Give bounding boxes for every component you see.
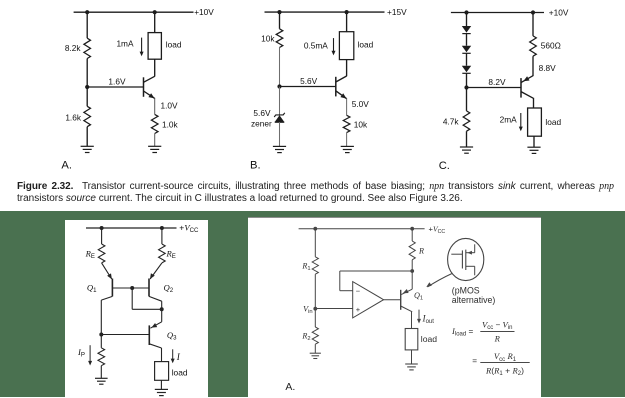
- node: feedback/emitter junction: [410, 269, 414, 273]
- svg-text:A.: A.: [285, 381, 295, 393]
- white panel: current mirror figure: [65, 220, 208, 398]
- wire: Q1 collector to load: [401, 306, 413, 312]
- svg-text:R1: R1: [301, 261, 310, 272]
- caption line 1: [17, 181, 614, 193]
- wire: zener to ground (B): [279, 122, 281, 146]
- svg-text:+VCC: +VCC: [179, 222, 199, 234]
- zener diode 5.6V: [275, 115, 285, 122]
- svg-text:+15V: +15V: [387, 7, 407, 17]
- label Iout with arrow: [418, 310, 420, 322]
- svg-text:alternative): alternative): [452, 295, 496, 305]
- green background band: [0, 211, 625, 397]
- wire: load to ground (C): [533, 136, 535, 147]
- svg-text:5.6V: 5.6V: [300, 76, 318, 86]
- wire: base node to base (A): [87, 86, 143, 88]
- svg-text:R2: R2: [301, 332, 310, 343]
- svg-text:load: load: [358, 40, 374, 50]
- svg-text:B.: B.: [250, 159, 261, 171]
- wire: R1 to Vin node: [314, 274, 316, 308]
- svg-text:Vcc R1: Vcc R1: [494, 351, 517, 363]
- svg-text:R: R: [418, 247, 424, 256]
- svg-text:load: load: [421, 334, 437, 344]
- wire: Q3 base to node: [101, 334, 149, 336]
- wire: rail to load box (A): [154, 12, 156, 32]
- wire: D1 to D2: [466, 34, 468, 46]
- svg-text:Iout: Iout: [422, 313, 435, 325]
- ground (mirror load): [155, 388, 168, 390]
- wire: node to base (B): [280, 86, 336, 88]
- op-amp U1: [353, 282, 384, 318]
- resistor RE (right): [159, 244, 166, 263]
- wire: R to emitter junction: [411, 260, 413, 271]
- resistor 10k (B bias): [276, 29, 283, 48]
- svg-text:1.6V: 1.6V: [108, 76, 126, 86]
- wire: 1.6k to ground: [86, 127, 88, 147]
- resistor 1.6k: [84, 106, 91, 126]
- load box (A): [148, 33, 161, 60]
- label I with arrow: [172, 349, 174, 361]
- wire: Vin node to R2: [314, 309, 316, 328]
- svg-text:+: +: [356, 305, 361, 314]
- svg-text:+10V: +10V: [549, 7, 569, 17]
- diode D2: [462, 46, 471, 53]
- node: base tie: [130, 286, 134, 290]
- svg-text:A.: A.: [61, 159, 72, 171]
- node: base node (C): [464, 85, 468, 89]
- svg-text:RE: RE: [166, 248, 176, 260]
- wire: rail to diode 1: [466, 13, 468, 27]
- wire: rail to resistor R 8.2k: [86, 12, 88, 38]
- ground (A emitter): [148, 145, 161, 147]
- wire: rail to load (B): [346, 12, 348, 32]
- wire: emitter down (A): [154, 98, 156, 114]
- svg-text:10k: 10k: [354, 120, 368, 130]
- diode D1: [462, 26, 471, 33]
- transistor Q (npn, circuit A): [143, 77, 145, 97]
- node: zener/base node (B): [277, 84, 281, 88]
- svg-text:load: load: [545, 117, 561, 127]
- wire: +10V supply rail (circuit C): [451, 12, 544, 14]
- wire: rail to RE left: [101, 228, 103, 244]
- ground (C load): [527, 146, 540, 148]
- wire: RE to Q1 emitter: [102, 263, 112, 279]
- load box (mirror): [155, 362, 169, 381]
- svg-text:+VCC: +VCC: [429, 225, 446, 235]
- resistor RE (left): [98, 244, 105, 263]
- node: rail junction left (op-amp): [313, 227, 317, 231]
- svg-text:0.5mA: 0.5mA: [304, 40, 328, 50]
- svg-text:Q2: Q2: [164, 283, 174, 295]
- wire: +Vcc rail (op-amp source): [299, 228, 425, 230]
- svg-text:Iload =: Iload =: [451, 326, 473, 338]
- node: rail junction right (op-amp): [410, 227, 414, 231]
- svg-text:load: load: [166, 40, 182, 50]
- ground (B emitter): [341, 145, 354, 147]
- node: rail junction left (C): [464, 10, 468, 14]
- svg-text:I: I: [176, 352, 181, 362]
- wire: emitter down (B): [346, 98, 348, 115]
- wire: tie to Q3 emitter: [161, 309, 163, 322]
- ground (A left): [81, 145, 94, 147]
- svg-text:10k: 10k: [261, 34, 275, 44]
- svg-text:Q3: Q3: [167, 330, 177, 342]
- svg-text:Vin: Vin: [303, 305, 313, 316]
- svg-text:1.0k: 1.0k: [162, 120, 179, 130]
- svg-text:R(R1 + R2): R(R1 + R2): [485, 365, 524, 377]
- resistor 4.7k: [463, 111, 470, 131]
- svg-text:Q1: Q1: [414, 291, 423, 302]
- wire: node to zener: [279, 87, 281, 116]
- node: rail junction right (A): [153, 10, 157, 14]
- wire: Q2 collector: [149, 296, 162, 301]
- svg-text:1mA: 1mA: [116, 38, 134, 48]
- ground (B zener): [273, 145, 286, 147]
- wire: load to collector (B): [346, 59, 348, 76]
- wire: base tie down to collector tie: [131, 288, 133, 309]
- wire: collector to load (C): [533, 98, 535, 108]
- svg-text:C.: C.: [439, 160, 450, 172]
- ground (C left): [460, 146, 473, 148]
- wire: feedback from - input: [340, 290, 353, 292]
- resistor IP (program): [98, 348, 105, 366]
- svg-text:load: load: [172, 367, 188, 377]
- node: rail junction left (A): [85, 10, 89, 14]
- wire: base node to base (C): [467, 87, 522, 89]
- resistor 10k (emitter B): [343, 115, 350, 132]
- svg-text:2mA: 2mA: [500, 114, 518, 124]
- svg-text:8.2k: 8.2k: [65, 43, 82, 53]
- resistor R (sense): [409, 241, 415, 260]
- node: rail junction left (B): [277, 10, 281, 14]
- wire: Q1 collector down: [101, 296, 112, 300]
- resistor 8.2k: [84, 38, 91, 58]
- node: rail junction right (C): [531, 10, 535, 14]
- transistor pMOS symbol: [461, 250, 463, 268]
- wire: +10V supply rail (circuit A): [74, 11, 194, 13]
- transistor Q2 (pnp mirror): [148, 279, 150, 297]
- svg-text:5.6V: 5.6V: [253, 108, 271, 118]
- svg-text:zener: zener: [251, 119, 272, 129]
- svg-text:+10V: +10V: [194, 7, 214, 17]
- wire: rail to RE right: [161, 228, 163, 244]
- svg-text:1.6k: 1.6k: [65, 113, 82, 123]
- wire: +VCC rail (mirror): [86, 227, 177, 229]
- svg-text:(pMOS: (pMOS: [452, 286, 480, 296]
- wire: load to collector (A): [154, 59, 156, 76]
- wire: base node to 4.7k: [466, 88, 468, 111]
- resistor R1: [312, 257, 318, 274]
- load box (B): [339, 32, 353, 60]
- wire: 10k to zener node: [279, 48, 281, 87]
- load box (op-amp source): [405, 329, 418, 350]
- transistor Q3 (pnp output): [148, 325, 150, 345]
- wire: D3 to base node (C): [466, 73, 468, 87]
- wire: R2 to ground: [314, 344, 316, 353]
- wire: rail to 10k (B): [279, 12, 281, 29]
- wire: Q1 base to Q2 base: [112, 287, 149, 289]
- svg-text:−: −: [356, 287, 361, 296]
- wire: op-amp output to Q1 base: [384, 299, 401, 301]
- transistor Q (npn, circuit B): [335, 77, 337, 97]
- wire: base node to 1.6k: [86, 87, 88, 106]
- transistor Q1 (pnp pass): [400, 290, 402, 310]
- wire: Vin node to op-amp + input: [315, 308, 352, 310]
- wire: D2 to D3: [466, 53, 468, 65]
- wire: load to ground (mirror): [160, 380, 162, 389]
- wire: 4.7k to ground (C): [466, 131, 468, 147]
- white panel: op-amp current source figure: [248, 217, 541, 398]
- ground (mirror left): [95, 377, 108, 379]
- transistor Q (pnp, circuit C): [520, 78, 522, 98]
- node: rail junction right (B): [345, 10, 349, 14]
- transistor Q1 (pnp mirror): [111, 279, 113, 297]
- resistor 560 ohm: [530, 36, 537, 56]
- wire: resistor to ground (mirror): [100, 366, 102, 379]
- node: Vin node: [313, 307, 317, 311]
- wire: 560 ohm to emitter (C): [532, 56, 534, 76]
- wire: rail to 560 ohm: [532, 13, 534, 36]
- svg-text:4.7k: 4.7k: [443, 116, 460, 126]
- svg-text:IP: IP: [77, 347, 85, 359]
- node: rail junction right (mirror): [160, 226, 164, 230]
- wire: 1.0k to ground (A): [154, 134, 156, 147]
- wire: rail to R sense: [411, 229, 413, 241]
- wire: junction to Q1 emitter: [411, 271, 413, 289]
- svg-text:560Ω: 560Ω: [541, 40, 561, 50]
- wire: +15V supply rail (circuit B): [265, 11, 385, 13]
- svg-text:Vcc − Vin: Vcc − Vin: [482, 319, 513, 331]
- diode D3: [462, 66, 471, 73]
- svg-text:8.2V: 8.2V: [488, 77, 506, 87]
- node: Q2 collector tie: [160, 307, 164, 311]
- wire: RE to Q2 emitter: [150, 263, 162, 279]
- wire: 10k to ground (B): [346, 133, 348, 147]
- load box (C): [528, 108, 542, 136]
- node: Q3 base node: [99, 333, 103, 337]
- svg-text:Q1: Q1: [87, 283, 97, 295]
- svg-text:8.8V: 8.8V: [539, 63, 557, 73]
- wire: 8.2k to base node: [86, 59, 88, 88]
- svg-text:RE: RE: [85, 248, 95, 260]
- ground (R2): [310, 352, 321, 354]
- arrow: pMOS alternative pointer: [428, 274, 453, 288]
- wire: rail to R1: [314, 229, 316, 257]
- node: rail junction left (mirror): [100, 226, 104, 230]
- svg-text:=: =: [472, 357, 477, 366]
- caption line 2: [17, 193, 617, 205]
- wire: load to ground (op-amp source): [411, 350, 413, 364]
- svg-text:R: R: [494, 334, 501, 344]
- ground (op-amp load): [405, 363, 418, 365]
- svg-text:5.0V: 5.0V: [352, 99, 370, 109]
- wire: node to IP resistor: [100, 335, 102, 348]
- wire: Q3 collector to load: [149, 344, 161, 348]
- svg-text:1.0V: 1.0V: [161, 101, 179, 111]
- pMOS alternative circle: [448, 238, 484, 280]
- resistor 1.0k (emitter): [151, 114, 158, 133]
- node: base divider node (A): [85, 85, 89, 89]
- resistor R2: [312, 327, 318, 344]
